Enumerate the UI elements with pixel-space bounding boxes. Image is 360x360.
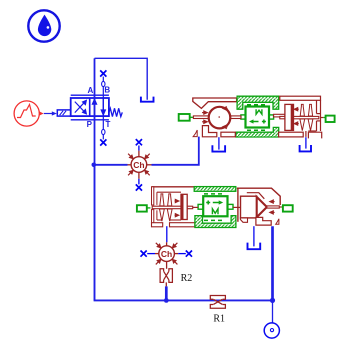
cone shaft bbox=[267, 206, 279, 208]
valve straight arrows bbox=[93, 98, 106, 116]
compensator arrows bbox=[294, 108, 299, 126]
cone pump barrel bbox=[241, 196, 257, 218]
svg-text:T: T bbox=[105, 120, 110, 129]
tank feed under pump bbox=[218, 137, 220, 149]
motor dashed lines (middle) bbox=[204, 193, 225, 195]
wire bottom main bbox=[94, 299, 273, 301]
svg-text:R1: R1 bbox=[213, 313, 225, 324]
port bead B bbox=[102, 81, 105, 86]
junction dot R2 bbox=[164, 298, 169, 303]
gauge Ch2 bbox=[155, 242, 178, 268]
oil drop indicator bbox=[28, 10, 59, 41]
valve 4/2 proportional body bbox=[71, 95, 109, 120]
wire to connector bbox=[272, 300, 274, 323]
pump housing banner bbox=[193, 98, 237, 108]
drain to tank (middle) bbox=[253, 226, 255, 246]
wire plug E of Ch2 bbox=[178, 253, 186, 255]
compensator housing top bbox=[280, 96, 321, 100]
cone drain flag bbox=[276, 219, 279, 225]
cone pump housing bbox=[237, 188, 280, 222]
valve crossed arrows bbox=[75, 100, 87, 113]
proportional solenoid bbox=[57, 110, 70, 116]
gauge Ch1 bbox=[128, 151, 152, 179]
wire B/T line bbox=[102, 77, 104, 140]
cone pump cone bbox=[257, 197, 267, 217]
svg-text:B: B bbox=[104, 86, 110, 95]
electric motor M2 bbox=[198, 196, 233, 216]
wire gauge Ch1 to pump drain bbox=[152, 137, 199, 165]
wire plug S of Ch1 bbox=[138, 179, 140, 185]
pump circle bbox=[209, 107, 231, 129]
motor mount hatch top (top assembly) bbox=[237, 96, 279, 109]
shaft spring section to motor bbox=[193, 206, 198, 208]
pump suction port (green) bbox=[179, 114, 194, 121]
compensator drain stub bbox=[305, 131, 307, 137]
plug X above B bbox=[100, 70, 106, 76]
tank (under cone pump) bbox=[248, 243, 261, 250]
junction dot right bbox=[270, 298, 275, 303]
compensator piston bbox=[285, 104, 294, 130]
compensator bottom bars bbox=[279, 132, 304, 137]
tank feed under compensator bbox=[305, 137, 307, 148]
pump bottom L bracket bbox=[202, 126, 216, 137]
plug X west Ch2 bbox=[141, 251, 147, 257]
cone bottom L bracket bbox=[256, 217, 271, 225]
shaft motor to compensator bbox=[274, 114, 285, 117]
svg-text:A: A bbox=[88, 86, 94, 95]
drain center to gauge Ch2 bbox=[166, 226, 168, 242]
springs (middle) bbox=[160, 194, 173, 221]
pump case drain flag bbox=[193, 130, 197, 137]
motor mount hatch top (middle) bbox=[194, 187, 236, 192]
wire left main down bbox=[94, 165, 96, 301]
motor mount hatch bottom (top assembly) bbox=[236, 127, 279, 137]
shaft pump to motor bbox=[231, 116, 241, 119]
svg-text:Ch: Ch bbox=[133, 160, 144, 170]
port (green right middle) bbox=[279, 205, 292, 211]
piston (middle) bbox=[181, 194, 187, 219]
cone arrows bbox=[270, 200, 275, 214]
electric motor M1 (inverted) bbox=[241, 107, 274, 128]
wire plug N of Ch1 bbox=[138, 146, 140, 151]
restrictor R1 bbox=[210, 296, 225, 309]
svg-text:Ch: Ch bbox=[161, 249, 172, 259]
compensator springs bbox=[300, 104, 313, 130]
wire R2 to bottom bbox=[165, 282, 167, 286]
motor dashed lines (top assembly) bbox=[247, 104, 268, 106]
wire plug W of Ch2 bbox=[147, 253, 155, 255]
cone bottom trapezoid bbox=[240, 218, 247, 222]
valve spring bbox=[109, 108, 122, 116]
compensator housing right wall bbox=[308, 100, 320, 131]
pump flow arrows bbox=[202, 107, 228, 129]
pump shaft left bbox=[193, 116, 209, 119]
restrictor R2 bbox=[160, 269, 172, 283]
spring housing outer bbox=[152, 187, 195, 227]
pressure port (green right) bbox=[321, 116, 335, 122]
plug X below T bbox=[100, 139, 106, 145]
tank (under pump) bbox=[212, 145, 225, 151]
tank (under compensator) bbox=[300, 145, 311, 151]
pump bottom bar bbox=[221, 132, 235, 137]
wire signal to solenoid bbox=[44, 111, 57, 115]
port (green left) bbox=[137, 205, 151, 211]
pressure hose down (thick) bbox=[271, 226, 274, 300]
tank (top) bbox=[141, 97, 154, 102]
compensator long shaft bbox=[280, 116, 319, 118]
wire A-line vertical bbox=[94, 58, 96, 165]
plug X south Ch1 bbox=[136, 184, 142, 190]
svg-text:P: P bbox=[87, 120, 93, 129]
svg-text:R2: R2 bbox=[181, 273, 193, 284]
junction dot A bbox=[92, 163, 97, 168]
shaft motor to cone pump bbox=[233, 206, 241, 208]
wire junction to gauge Ch1 bbox=[95, 164, 128, 166]
connector node bbox=[264, 323, 279, 338]
plug X east Ch2 bbox=[186, 251, 192, 257]
plug X north Ch1 bbox=[136, 139, 142, 145]
arrows (middle left) bbox=[175, 199, 179, 216]
motor mount hatch bottom U (middle) bbox=[195, 216, 236, 228]
port bead T bbox=[102, 129, 105, 134]
signal generator bbox=[14, 101, 43, 126]
wire to tank top bbox=[95, 58, 148, 100]
shaft left (middle) bbox=[152, 206, 193, 209]
